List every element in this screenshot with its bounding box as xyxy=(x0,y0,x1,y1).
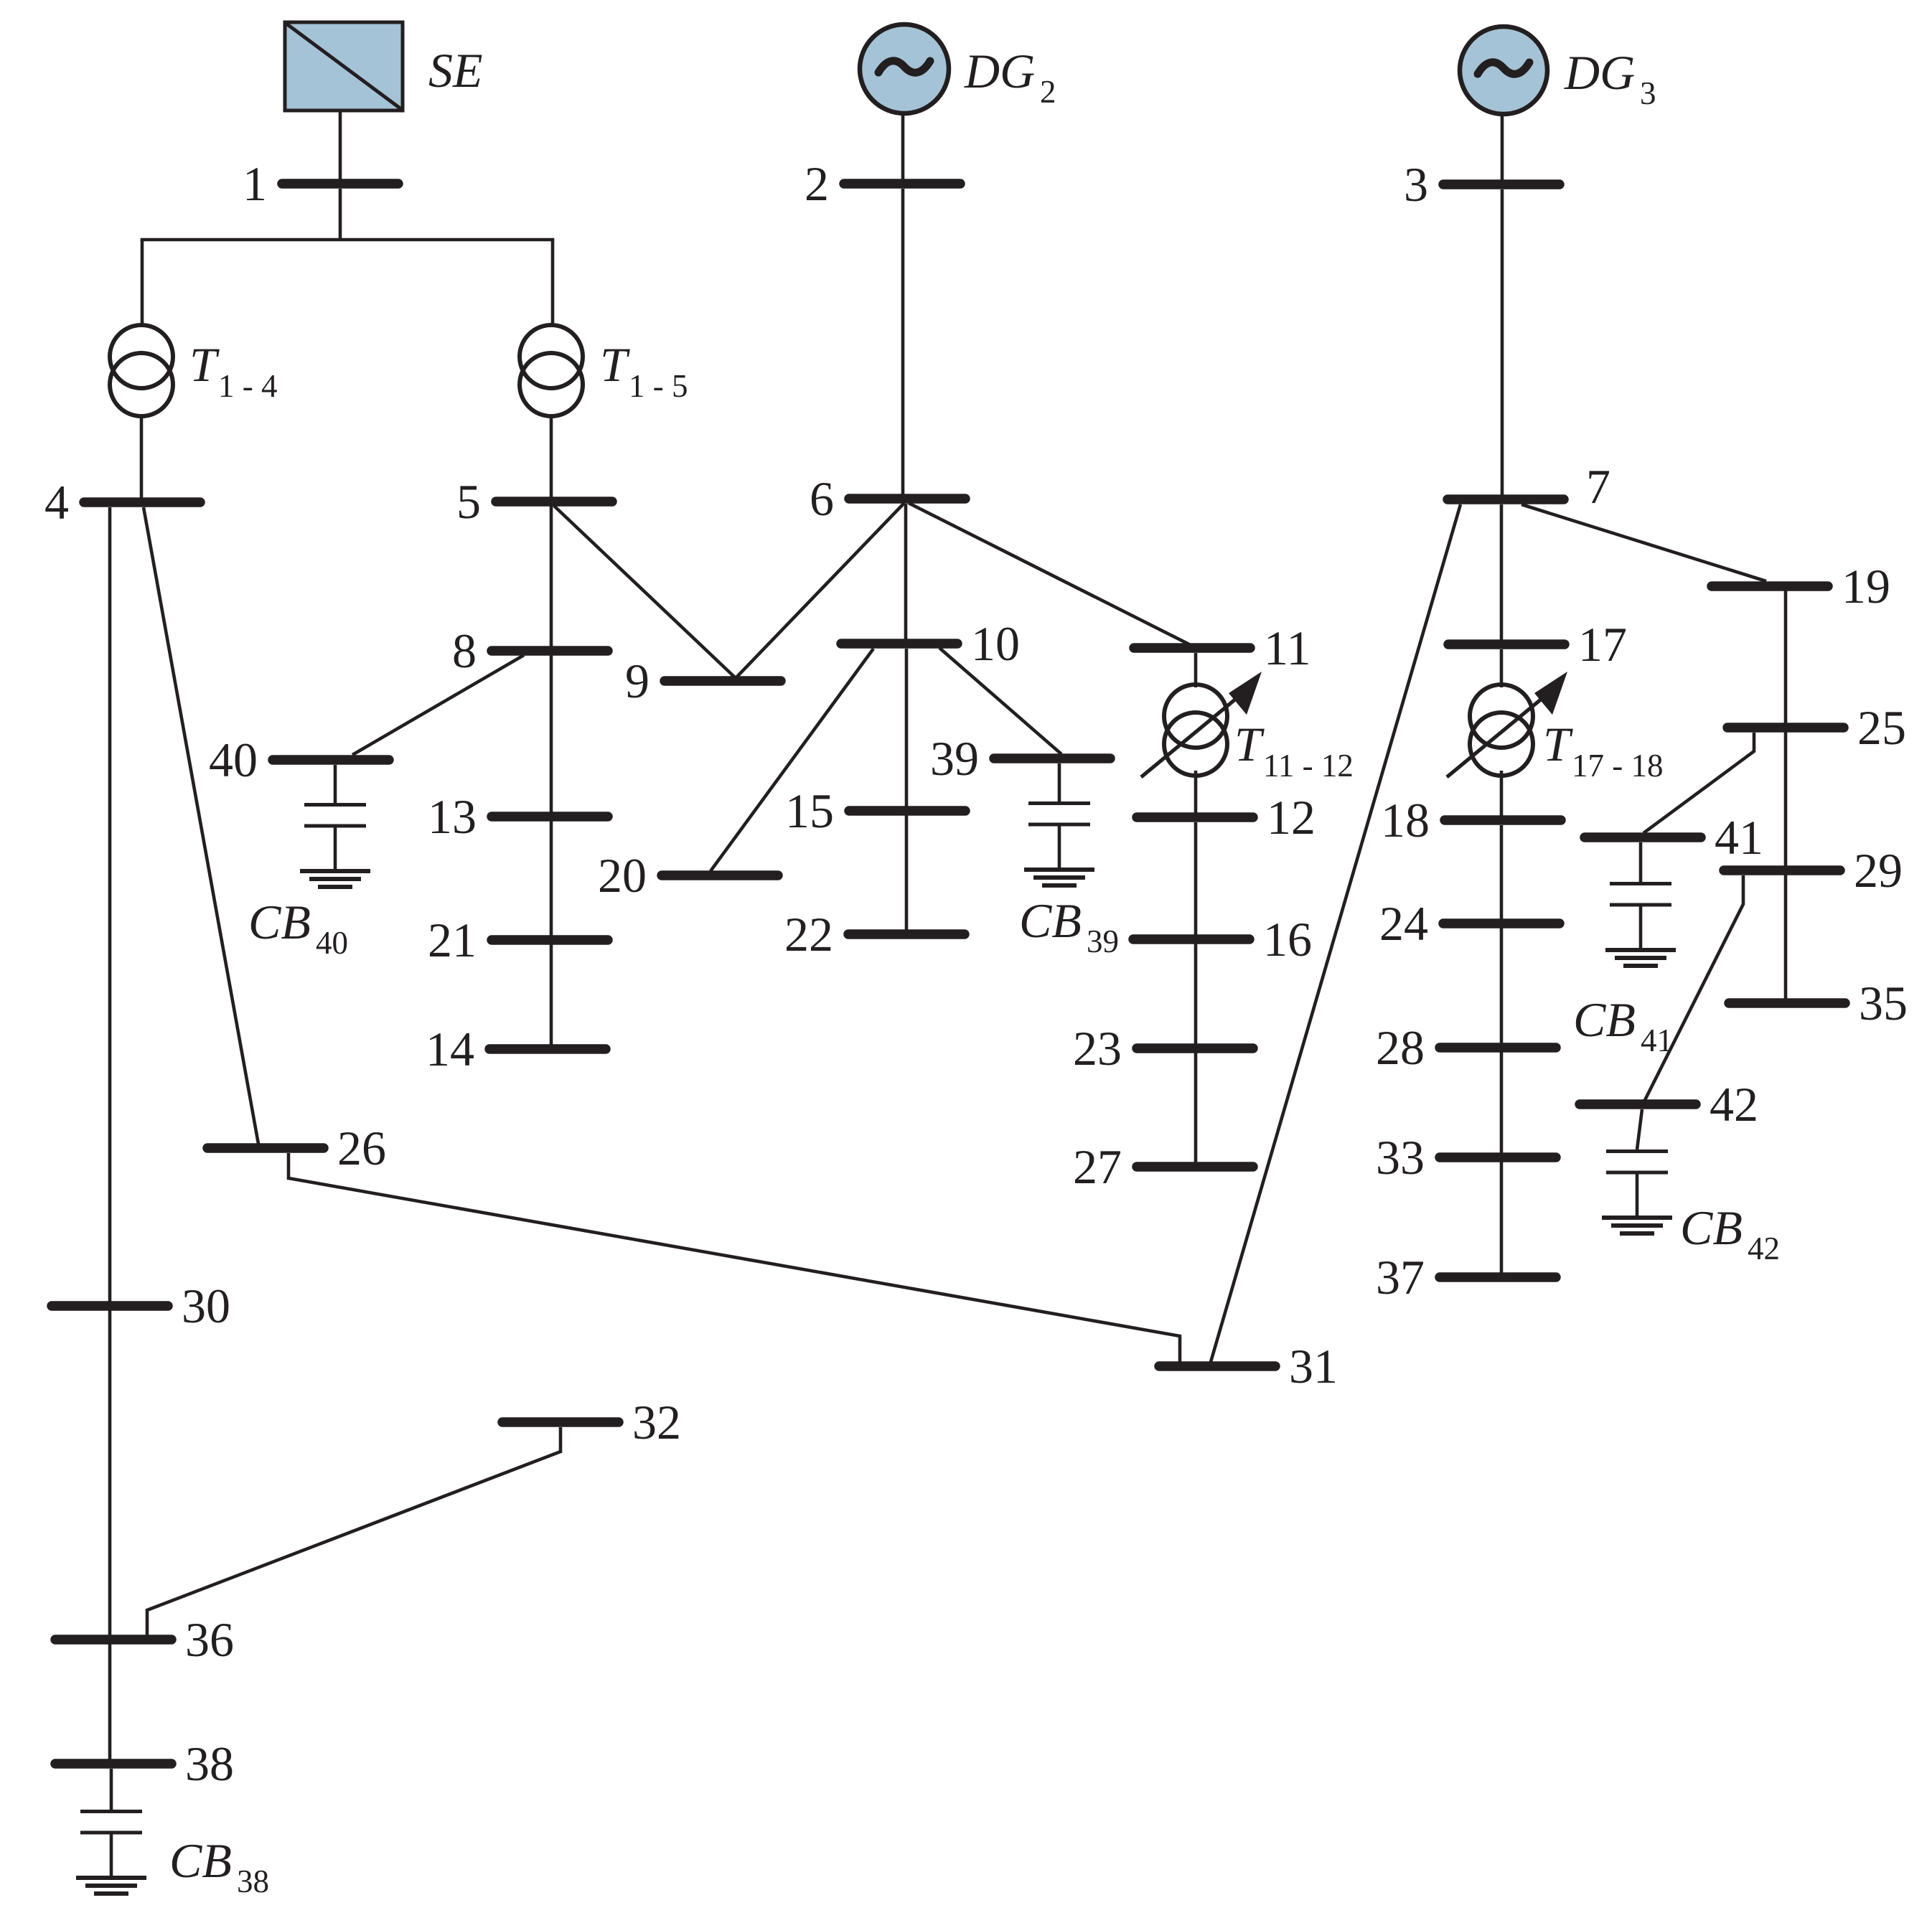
svg-text:3: 3 xyxy=(1640,75,1656,111)
svg-text:26: 26 xyxy=(337,1121,386,1175)
wire T11-12 to bus 12 xyxy=(1194,771,1198,813)
bus 20 xyxy=(662,870,778,880)
svg-text:7: 7 xyxy=(1586,459,1610,514)
transformer T11-12 with tap changer xyxy=(1164,685,1227,748)
transformer T17-18 with tap changer xyxy=(1470,685,1533,748)
svg-text:DG: DG xyxy=(964,44,1035,98)
svg-text:4: 4 xyxy=(44,475,69,530)
bus 41 xyxy=(1585,832,1701,842)
bus 42 xyxy=(1580,1099,1696,1109)
bus 29 xyxy=(1724,865,1840,875)
svg-text:38: 38 xyxy=(185,1736,234,1791)
wire bus 7 to bus 31 xyxy=(1211,504,1460,1362)
svg-text:1 - 4: 1 - 4 xyxy=(218,368,278,404)
svg-text:9: 9 xyxy=(625,654,650,708)
bus 14 xyxy=(489,1044,606,1054)
wire split horizontal xyxy=(141,238,555,242)
bus 9 xyxy=(665,676,781,686)
bus 38 xyxy=(55,1759,172,1769)
svg-text:39: 39 xyxy=(930,731,979,786)
svg-text:16: 16 xyxy=(1263,912,1312,967)
wire bus 26 to bus 31 xyxy=(289,1153,1180,1362)
wire bus 5 to buses 8 13 21 14 xyxy=(550,506,553,1045)
wire bus 6 to bus 10 xyxy=(904,504,908,639)
capacitor bank CB41 xyxy=(1639,842,1643,882)
svg-text:36: 36 xyxy=(185,1612,234,1667)
wire bus 6 to bus 9 xyxy=(736,503,904,677)
bus 24 xyxy=(1443,918,1560,928)
bus 35 xyxy=(1729,998,1845,1008)
bus 2 xyxy=(844,179,960,189)
svg-text:37: 37 xyxy=(1376,1250,1425,1304)
bus 11 xyxy=(1134,643,1250,653)
svg-text:CB: CB xyxy=(1019,893,1082,948)
bus 3 xyxy=(1443,179,1560,189)
bus 8 xyxy=(492,646,608,656)
svg-text:2: 2 xyxy=(805,156,829,211)
svg-text:19: 19 xyxy=(1842,559,1890,613)
wire bus 32 to bus 36 xyxy=(147,1427,561,1635)
bus 32 xyxy=(502,1417,619,1427)
wire bus 1 to split xyxy=(339,189,342,241)
svg-text:CB: CB xyxy=(248,895,311,949)
svg-text:5: 5 xyxy=(456,474,481,529)
svg-text:11: 11 xyxy=(1264,621,1310,675)
bus 25 xyxy=(1727,723,1844,733)
bus 18 xyxy=(1445,815,1561,825)
bus 21 xyxy=(492,935,608,945)
svg-text:41: 41 xyxy=(1715,810,1763,865)
svg-text:12: 12 xyxy=(1267,790,1316,845)
svg-text:CB: CB xyxy=(1680,1200,1743,1255)
svg-text:39: 39 xyxy=(1087,923,1119,959)
svg-text:32: 32 xyxy=(632,1395,681,1449)
bus 37 xyxy=(1440,1272,1556,1282)
wire bus 29 to bus 42 xyxy=(1643,875,1743,1104)
svg-text:21: 21 xyxy=(428,913,477,967)
svg-text:2: 2 xyxy=(1040,74,1056,110)
svg-text:35: 35 xyxy=(1859,976,1908,1030)
wire T1-5 to bus 5 xyxy=(550,415,553,498)
wire split to T1-4 xyxy=(141,240,144,327)
svg-text:18: 18 xyxy=(1381,793,1430,847)
svg-text:22: 22 xyxy=(784,907,833,961)
bus 30 xyxy=(52,1301,168,1311)
wire bus 17 to T17-18 xyxy=(1500,649,1504,687)
wire bus 18 to buses 24 28 33 37 xyxy=(1500,825,1504,1273)
bus 17 xyxy=(1448,639,1565,649)
substation SE xyxy=(285,22,403,111)
wire bus 12 to buses 16 23 27 xyxy=(1194,822,1198,1162)
svg-text:CB: CB xyxy=(1573,992,1636,1047)
wire bus 7 to bus 19 xyxy=(1521,504,1766,581)
wire split to T1-5 xyxy=(551,240,555,327)
generator DG2 xyxy=(860,24,949,113)
bus 40 xyxy=(273,755,389,765)
bus 28 xyxy=(1440,1043,1556,1053)
svg-text:27: 27 xyxy=(1073,1139,1122,1194)
wire bus 25 to bus 41 xyxy=(1643,733,1754,833)
svg-text:T: T xyxy=(1543,717,1573,771)
svg-text:T: T xyxy=(1234,717,1265,771)
bus 31 xyxy=(1159,1361,1275,1371)
svg-text:41: 41 xyxy=(1641,1022,1673,1058)
svg-text:CB: CB xyxy=(169,1833,232,1888)
svg-text:40: 40 xyxy=(209,733,258,787)
wire SE to bus 1 xyxy=(339,111,342,179)
svg-text:T: T xyxy=(600,337,630,392)
bus 26 xyxy=(207,1143,324,1153)
wire bus 8 to bus 40 xyxy=(352,655,524,755)
svg-text:33: 33 xyxy=(1376,1130,1425,1185)
svg-text:28: 28 xyxy=(1376,1020,1425,1075)
capacitor bank CB42 stem xyxy=(1637,1109,1642,1149)
transformer T1-4 xyxy=(110,325,173,388)
svg-text:25: 25 xyxy=(1857,700,1906,755)
bus 4 xyxy=(84,497,200,507)
wire DG2 to bus 2 xyxy=(901,113,905,179)
svg-text:13: 13 xyxy=(428,789,477,844)
svg-text:8: 8 xyxy=(452,624,477,678)
bus 33 xyxy=(1440,1152,1556,1162)
svg-text:DG: DG xyxy=(1564,45,1635,100)
capacitor bank CB39 xyxy=(1058,763,1061,801)
wire bus 2 to bus 6 xyxy=(901,189,905,494)
capacitor bank CB40 xyxy=(334,765,337,803)
transformer T1-5 xyxy=(520,325,583,388)
svg-text:17: 17 xyxy=(1578,617,1627,672)
svg-text:15: 15 xyxy=(785,784,834,838)
wire bus 4 to bus 26 xyxy=(144,507,258,1144)
wire bus 5 to bus 9 xyxy=(554,506,735,677)
bus 19 xyxy=(1712,581,1828,591)
wire bus 10 to bus 39 xyxy=(939,648,1061,754)
capacitor bank CB42 xyxy=(1606,1149,1668,1153)
wire DG3 to bus 3 xyxy=(1501,114,1504,180)
wire bus 11 to T11-12 xyxy=(1194,653,1198,687)
bus 39 xyxy=(994,753,1110,763)
generator DG3 xyxy=(1460,27,1547,114)
bus 7 xyxy=(1448,494,1564,504)
wire T1-4 to bus 4 xyxy=(140,415,144,498)
svg-text:42: 42 xyxy=(1710,1077,1758,1132)
wire bus 4 feeder to buses 30 36 38 xyxy=(108,507,112,1759)
svg-text:11 - 12: 11 - 12 xyxy=(1263,748,1354,784)
svg-text:38: 38 xyxy=(237,1863,269,1899)
svg-text:6: 6 xyxy=(810,471,834,526)
svg-text:42: 42 xyxy=(1748,1231,1780,1266)
svg-text:1: 1 xyxy=(243,156,267,211)
bus 10 xyxy=(841,639,957,649)
bus 27 xyxy=(1137,1162,1253,1172)
svg-text:31: 31 xyxy=(1289,1339,1338,1393)
svg-text:30: 30 xyxy=(182,1279,230,1333)
svg-text:40: 40 xyxy=(316,925,348,961)
wire bus 3 to bus 7 xyxy=(1501,189,1504,495)
svg-text:3: 3 xyxy=(1404,157,1428,212)
wire bus 10 to bus 15 to bus 22 xyxy=(905,649,909,930)
wire bus 19 to buses 25 29 35 xyxy=(1784,591,1788,999)
bus 1 xyxy=(282,179,398,189)
wire bus 6 to bus 11 xyxy=(909,503,1191,645)
svg-text:10: 10 xyxy=(971,616,1020,671)
svg-text:23: 23 xyxy=(1073,1021,1122,1076)
svg-text:T: T xyxy=(189,337,220,392)
bus 13 xyxy=(492,812,608,822)
bus 15 xyxy=(849,806,965,816)
svg-text:20: 20 xyxy=(598,848,647,903)
wire T17-18 to bus 18 xyxy=(1500,771,1504,816)
svg-text:17 - 18: 17 - 18 xyxy=(1572,748,1664,784)
svg-text:24: 24 xyxy=(1379,896,1428,951)
wire bus 10 to bus 20 xyxy=(711,649,873,871)
bus 22 xyxy=(848,929,965,939)
bus 36 xyxy=(55,1635,172,1645)
capacitor bank CB38 xyxy=(110,1769,113,1810)
bus 12 xyxy=(1137,812,1253,822)
bus 5 xyxy=(496,497,612,507)
svg-text:29: 29 xyxy=(1854,843,1903,898)
svg-text:1 - 5: 1 - 5 xyxy=(629,368,688,404)
svg-text:SE: SE xyxy=(428,43,483,98)
bus 16 xyxy=(1133,934,1249,944)
bus 23 xyxy=(1137,1043,1253,1053)
svg-text:14: 14 xyxy=(426,1022,474,1076)
bus 6 xyxy=(849,494,965,504)
wire bus 7 to bus 17 xyxy=(1500,504,1504,640)
